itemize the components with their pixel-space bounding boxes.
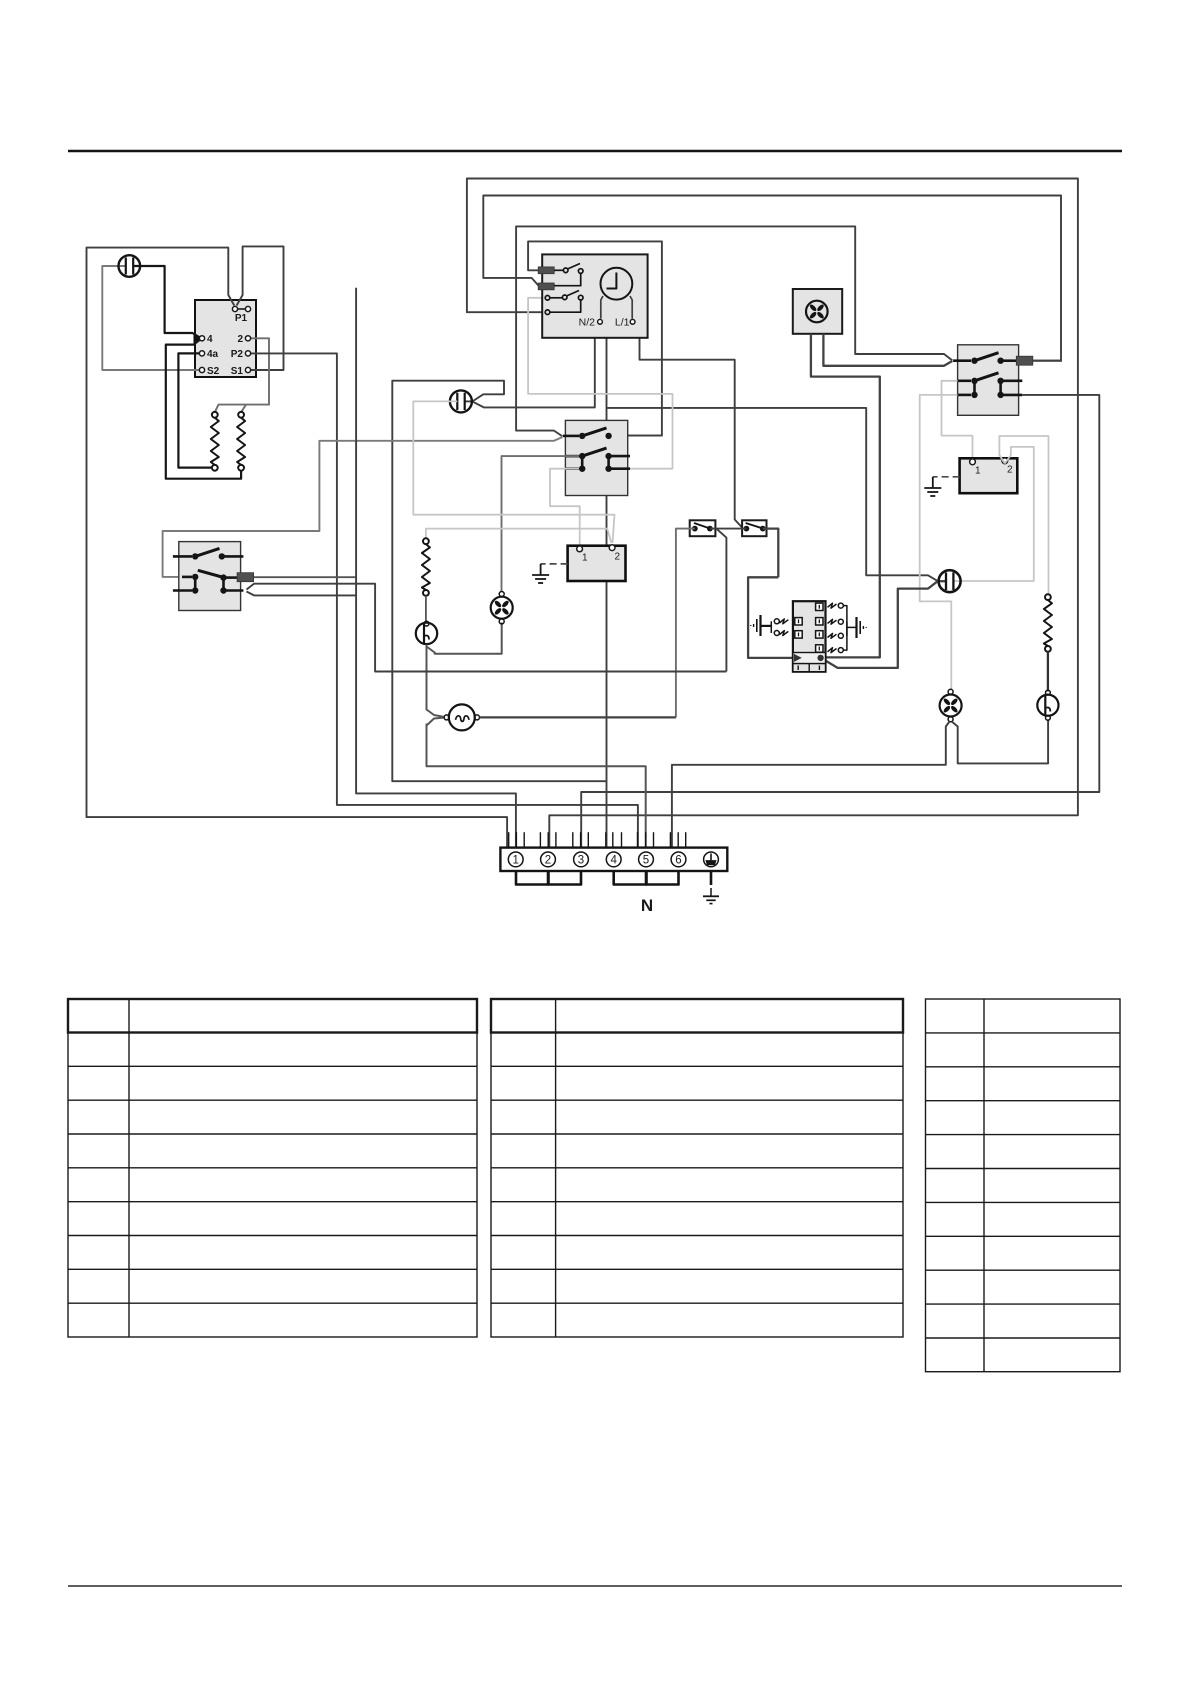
browning element R3 [422,538,430,621]
terminal 4 [606,852,621,867]
wire fan M3 bottom to oven lamp bottom [952,720,1048,764]
svg-text:2: 2 [545,855,551,867]
svg-text:N: N [641,896,653,915]
S1 contact a [173,548,244,559]
timer clock switch T [538,254,647,337]
bank cam squares [795,603,823,652]
microswitch S5 [690,520,716,536]
terminal block stubs [509,832,686,847]
wire S2 pole a upper to fan motor M2 top [502,456,580,591]
bank right contact row 4 [828,648,844,653]
wire fan M3 bottom to terminal 6 [672,722,950,848]
wire S5 right branch down to selector chevron bus [717,529,727,672]
earth lead and ground [703,871,719,904]
wire grill selector b lower-right to terminal 3 [581,395,1099,848]
cooling fan motor M1 box [793,289,842,334]
svg-text:2: 2 [615,552,621,563]
wire oven switch contact 1 to loop D vertical [609,435,662,437]
svg-text:S1: S1 [231,366,244,377]
jumper link terminals 5-6 [647,871,679,885]
timer clock dial [601,268,633,300]
ground at ignitor A [532,564,549,583]
legend table 1 [68,999,477,1337]
S3 connector lug [1016,356,1033,365]
S2 contact a [563,428,612,439]
bank right contact row 3 [828,633,844,638]
ignitor B (spark generator) [960,458,1018,493]
terminal 6 [671,852,686,867]
wire timer block2 branch down to terminal 1 [356,288,516,848]
wire microswitch S6 to lock bank input [748,577,794,658]
capacitor C2 [450,390,473,412]
wire N/2 right leg to capacitor C3 bus [600,324,938,581]
wire grill selector b upper-left to ignitor B terminal 1 (light) [942,381,973,459]
wire grill selector b lower-left to fan M3 (light) [920,395,958,689]
wire S6 right down [763,529,779,578]
svg-text:4a: 4a [207,349,219,360]
wire S1 chevron lower line to terminal 1 branch [247,592,357,596]
svg-text:P1: P1 [235,313,248,324]
thermal cut-out F1 [416,621,437,644]
svg-text:6: 6 [675,855,681,867]
wire loop D: timer upper input block to oven switch contact [528,241,662,435]
wire ignitor B terminal 2 to capacitor C3 right (light) [953,447,1033,581]
timer dial feed wires [601,296,632,319]
capacitor C1 [119,255,141,277]
S3 contact b (double pole) [958,373,1023,398]
wire loop B: timer lower input block to grill selector contact [483,196,1061,361]
wire N/2 right leg junction down to terminal 4 [606,408,608,848]
wire P2 to terminal 5 [251,353,638,847]
wire ignitor B terminal 2 to oven lamp resistor (light) [999,436,1048,595]
bottom rule [68,1585,1122,1587]
svg-text:N/2: N/2 [579,317,596,329]
wire capacitor C3 left lower line to bank output [822,581,938,668]
svg-text:5: 5 [643,855,649,867]
svg-text:P2: P2 [231,349,244,360]
svg-text:L/1: L/1 [615,317,630,329]
wire capacitor C2 upper line joining terminal-4 drop [392,381,606,782]
wire P1 feed from terminal 1 (left outer loop) [87,248,508,848]
wire pin 4a to grill element R1 bottom [178,353,211,467]
legend table 3 [926,999,1121,1372]
bank right contact row 2 [828,619,844,624]
wire thermal F1 down to convection motor M4 left [427,645,444,726]
ground right of bank [857,617,867,638]
timer input block 1 [538,267,554,274]
wire loop A: timer T2 lower to terminal 2 [467,179,1078,848]
wire grill selector lug to loop B (up) [1033,360,1062,362]
timer terminal N/2 [598,319,603,324]
wire S1 chevron upper line to microswitch branch [247,584,727,672]
oven lamp E1 [1037,690,1058,720]
timer terminal L/1 [630,319,635,324]
wire fan M1 left to lock-switch bank output [811,334,880,658]
earth terminal [704,852,719,867]
oven fan motor M2 [491,592,513,624]
bank right contact chain to ground [843,606,856,651]
svg-text:3: 3 [578,855,584,867]
microswitch S6 [742,520,766,536]
svg-text:1: 1 [975,466,981,477]
wire convection motor M4 left to terminal 5 [427,724,646,848]
jumper link terminals 1-2 [516,871,548,885]
capacitor C3 [938,570,961,592]
wire capacitor C1 to pin 4 arrow [133,266,199,337]
S1 contact b (double pole) [173,570,244,593]
bank right contact row 1 [828,603,844,608]
wire function selector lug to timer-block2 net [254,576,357,578]
wire microswitch link L/1 junction [710,528,747,530]
wire browning element R3 top to ignitor A terminal 2 (light) [426,529,612,543]
bank left contacts pair [761,619,789,636]
svg-text:1: 1 [512,855,518,867]
jumper link terminals 2-3 [549,871,582,885]
terminal 3 [574,852,589,867]
terminal block [500,848,727,871]
timer contact t2 [545,291,583,315]
wire fan M1 right / grill selector arrow lower line [823,334,952,366]
wire timer T2 upper (light) to oven switch lower pole [528,298,672,469]
ignitor A (spark generator) [568,545,626,581]
wire loop C: oven selector feed / grill selector arrow upper line [516,226,952,436]
svg-text:1: 1 [582,553,588,564]
wire oven switch feed arrow lower line (to function selector) [163,437,563,577]
wire S5 left to fan motor M2 lead [676,529,695,718]
ignitor A earth dashed lead [541,563,568,565]
top rule [68,150,1122,152]
grill element R1 [211,412,219,471]
timer input block 2 [538,283,554,290]
jumper link terminals 4-5 [614,871,646,885]
wire L/1 to microswitch pair [633,324,746,528]
wire pin2 to grill element tops [215,338,269,412]
wire S2 to capacitor C1 [102,266,199,370]
oven circuit switch S2 [563,420,630,495]
svg-text:S2: S2 [207,366,220,377]
control module A1 body [195,300,256,377]
svg-text:4: 4 [610,855,617,867]
function selector switch S1 [173,542,254,611]
wire convection motor M4 right to microswitch S5 [480,716,676,718]
wire N/2 left leg to neutral bus (capacitor C2 side) [473,324,600,407]
grill selector switch S3 [953,345,1033,416]
terminal 5 [639,852,654,867]
convection motor M4 [444,704,479,730]
S1 connector lug [237,573,254,582]
oven cooling fan M3 [940,689,962,722]
wire grill element R2 bottom to pin 4 arrow [166,340,241,479]
terminal 1 [508,852,523,867]
wire S1 to P1 loop [237,246,284,370]
svg-text:2: 2 [237,334,243,345]
ignitor B earth dashed lead [933,476,960,478]
wire capacitor C2 left to ignitor A terminal 2 (light) [413,401,614,543]
S2 contact b (double pole) [565,448,630,472]
ground left of bank [751,615,761,636]
wire thermal F1 to fan M2 bottom [427,623,502,654]
bank output terminals [794,654,802,662]
ground at ignitor B [924,477,941,496]
oven lamp resistor R4 [1044,594,1052,691]
grill element R2 [237,412,245,471]
S3 contact a [953,353,1016,364]
control module A1 [199,306,250,377]
timer contact t1 [554,264,583,286]
wire S2 pole b lower to ignitor A terminal 1 (light) [550,469,580,545]
legend table 2 [491,999,903,1337]
door lock switch bank [751,601,866,672]
svg-text:4: 4 [207,334,213,345]
terminal 2 [541,852,556,867]
svg-text:2: 2 [1007,465,1013,476]
